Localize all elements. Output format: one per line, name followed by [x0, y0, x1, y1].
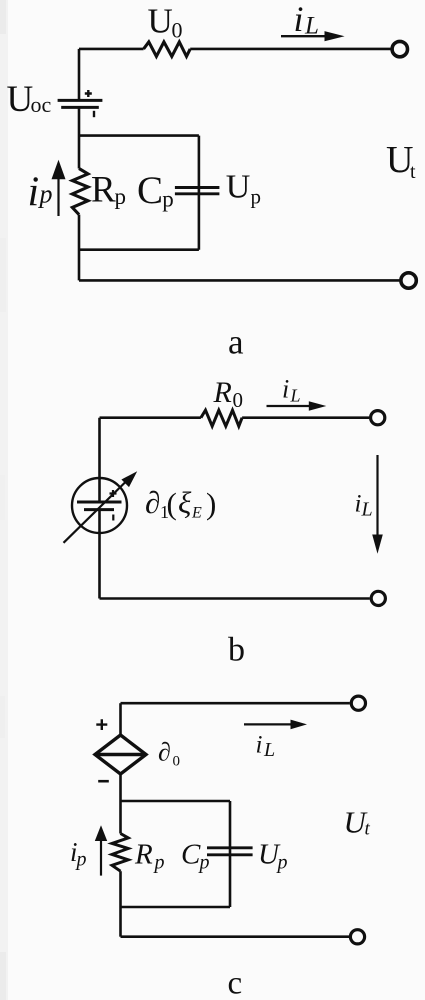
svg-text:i: i — [282, 375, 289, 404]
wire — [121, 702, 350, 705]
terminal c top — [351, 696, 365, 710]
wire — [100, 416, 201, 419]
resistor R0 — [201, 410, 242, 426]
current arrow iL (b right) — [376, 455, 378, 536]
wire — [78, 107, 81, 168]
svg-text:C: C — [181, 839, 201, 871]
wire — [79, 48, 144, 51]
label minus (c) — [98, 780, 109, 783]
svg-text:0: 0 — [173, 754, 181, 770]
svg-text:∂: ∂ — [158, 738, 171, 767]
svg-text:p: p — [115, 184, 127, 209]
controlled source diamond (c) — [95, 735, 146, 774]
svg-text:p: p — [251, 185, 262, 209]
wire : rc box bottom (c) — [121, 906, 231, 909]
wire : bottom rail (a) — [79, 279, 400, 282]
svg-text:L: L — [263, 739, 275, 761]
wire : rc box right (a) — [198, 136, 201, 250]
svg-text:i: i — [256, 732, 263, 759]
resistor Rp (c) — [112, 834, 128, 872]
capacitor Cp (c) — [207, 846, 253, 849]
svg-text:L: L — [361, 499, 373, 521]
svg-text:E: E — [191, 505, 202, 522]
battery Uoc — [58, 99, 103, 102]
svg-text:p: p — [75, 849, 87, 871]
svg-text:t: t — [365, 819, 371, 840]
wire — [119, 871, 122, 907]
controlled source circle (b) — [72, 478, 127, 533]
wire — [78, 49, 81, 100]
wire : bottom rail (c) — [121, 935, 350, 938]
svg-text:R: R — [213, 376, 232, 409]
svg-text:R: R — [134, 839, 153, 871]
battery plates inside source (b) — [77, 501, 122, 504]
current arrow iL (b top) — [267, 405, 311, 407]
variable-source arrow (b) — [64, 481, 127, 543]
wire — [190, 48, 391, 51]
resistor U0 — [144, 42, 191, 57]
svg-text:L: L — [304, 13, 319, 40]
svg-text:(: ( — [167, 486, 177, 521]
svg-text:b: b — [228, 632, 245, 669]
svg-text:p: p — [162, 187, 174, 212]
capacitor Cp (a) — [175, 186, 220, 189]
label plus (c) — [96, 719, 107, 730]
svg-text:U: U — [226, 169, 251, 206]
svg-text:L: L — [290, 386, 301, 406]
svg-text:a: a — [228, 323, 244, 362]
svg-text:p: p — [153, 852, 165, 874]
svg-text:U: U — [148, 2, 173, 41]
svg-text:c: c — [228, 966, 243, 1000]
wire : rc box right (c) — [229, 801, 232, 907]
wire : rc box top (c) — [121, 800, 231, 803]
wire : rc box bottom (a) — [79, 248, 199, 251]
wire — [119, 801, 122, 834]
svg-text:0: 0 — [233, 388, 244, 412]
svg-text:C: C — [137, 169, 163, 212]
terminal a bottom — [401, 273, 416, 288]
svg-text:): ) — [206, 486, 216, 521]
current arrow ip (a) — [57, 178, 59, 216]
wire — [242, 416, 369, 419]
svg-text:U: U — [7, 79, 34, 120]
terminal b bottom — [371, 591, 385, 605]
wire : rc box top (a) — [79, 134, 199, 137]
terminal c bottom — [350, 930, 364, 944]
wire — [78, 215, 81, 281]
svg-text:i: i — [294, 0, 304, 39]
wire — [119, 703, 122, 734]
svg-text:oc: oc — [31, 92, 52, 117]
svg-text:p: p — [38, 180, 53, 209]
wire — [98, 418, 101, 502]
svg-text:p: p — [276, 852, 288, 874]
terminal b top — [371, 411, 385, 425]
current arrow ip (c) — [100, 840, 102, 876]
svg-text:∂: ∂ — [145, 485, 160, 520]
wire : bottom rail (b) — [100, 597, 370, 600]
svg-text:ξ: ξ — [178, 485, 192, 520]
current arrow iL (a) — [281, 35, 326, 37]
wire — [119, 907, 122, 937]
svg-text:R: R — [91, 170, 116, 211]
wire — [119, 775, 122, 801]
svg-text:0: 0 — [172, 18, 183, 43]
svg-text:t: t — [410, 161, 416, 183]
resistor Rp (a) — [72, 169, 88, 215]
svg-text:i: i — [28, 170, 40, 216]
terminal a top — [392, 41, 407, 56]
svg-text:i: i — [355, 491, 362, 518]
wire — [98, 510, 101, 599]
current arrow iL (c) — [244, 723, 292, 725]
